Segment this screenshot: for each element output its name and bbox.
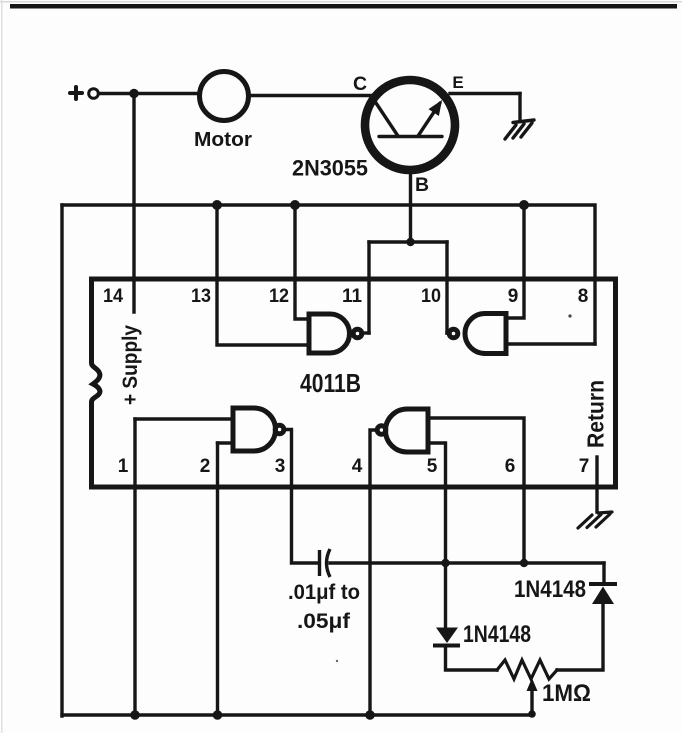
svg-text:14: 14 <box>103 286 123 307</box>
svg-text:Motor: Motor <box>194 129 252 151</box>
svg-text:10: 10 <box>421 286 441 307</box>
svg-text:4: 4 <box>352 456 363 477</box>
svg-text:Return: Return <box>583 380 609 448</box>
svg-text:1MΩ: 1MΩ <box>542 680 591 707</box>
svg-text:1N4148: 1N4148 <box>463 621 531 648</box>
svg-text:3: 3 <box>275 456 286 477</box>
svg-text:2N3055: 2N3055 <box>292 156 368 181</box>
svg-text:.05μf: .05μf <box>297 610 351 633</box>
svg-text:E: E <box>452 73 463 92</box>
svg-text:1: 1 <box>118 456 129 477</box>
svg-text:.01μf to: .01μf to <box>288 581 360 604</box>
svg-text:11: 11 <box>342 286 362 307</box>
svg-text:5: 5 <box>427 456 438 477</box>
svg-text:+ Supply: + Supply <box>119 325 142 405</box>
svg-text:C: C <box>353 73 367 95</box>
svg-text:12: 12 <box>269 286 289 307</box>
svg-text:B: B <box>415 174 429 196</box>
svg-text:8: 8 <box>578 286 589 307</box>
svg-text:13: 13 <box>191 286 211 307</box>
svg-text:9: 9 <box>508 286 519 307</box>
svg-text:2: 2 <box>200 456 211 477</box>
svg-text:7: 7 <box>579 456 590 477</box>
svg-text:4011B: 4011B <box>300 368 361 398</box>
svg-text:1N4148: 1N4148 <box>514 576 586 603</box>
svg-text:6: 6 <box>505 456 516 477</box>
